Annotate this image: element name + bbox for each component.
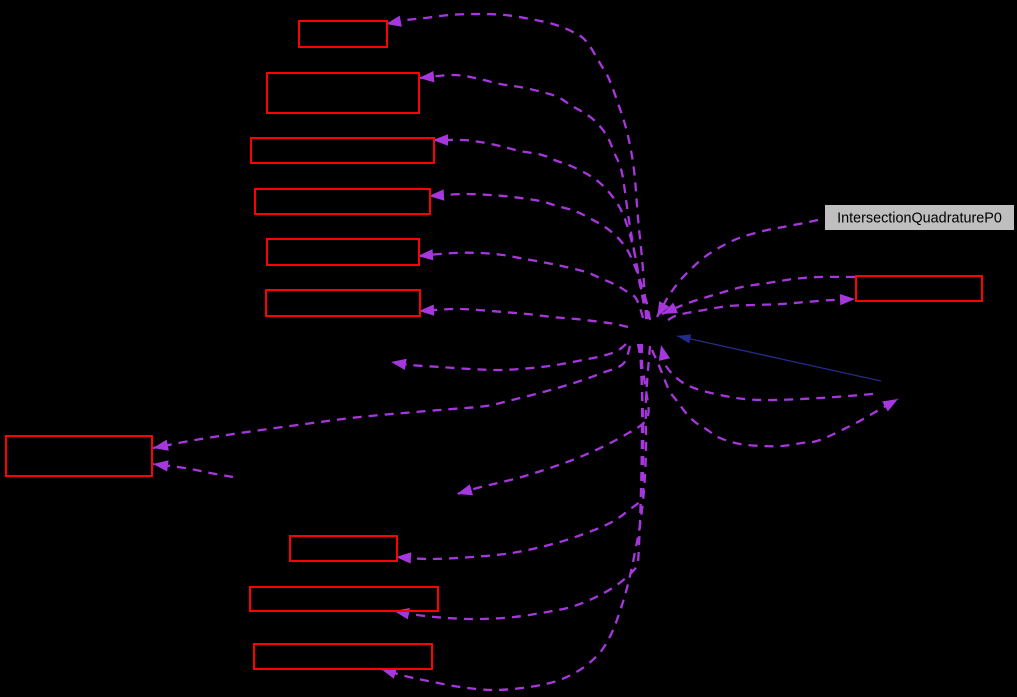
svg-text:IntersectionQuadratureP0: IntersectionQuadratureP0 bbox=[837, 211, 1002, 227]
